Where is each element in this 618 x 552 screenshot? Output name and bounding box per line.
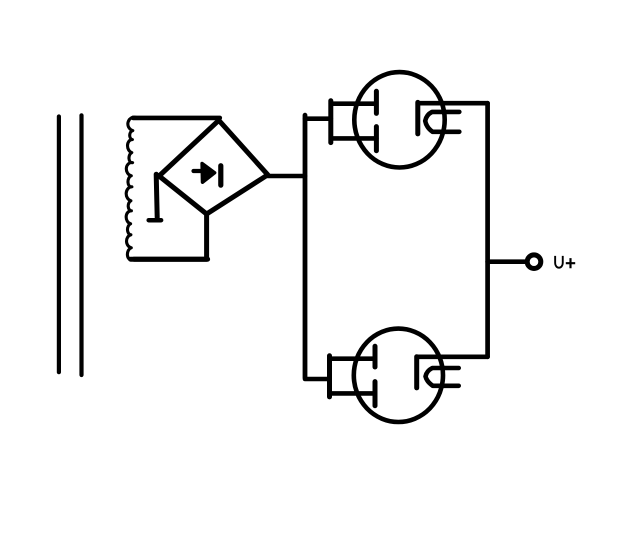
left rail wire (303, 115, 308, 378)
V1 cathode hook (425, 112, 459, 132)
V2 gate outer bar (327, 356, 332, 397)
wire left rail to V1 gate (305, 116, 331, 121)
V1 anode bar (415, 102, 420, 133)
output terminal ring (527, 255, 541, 269)
V1 gate outer bar (328, 101, 333, 143)
wire bridge bottom vertex down and left to coil (131, 215, 207, 260)
diode triangle (202, 164, 215, 183)
right rail wire (485, 103, 490, 357)
V1 gate bottom arm (331, 136, 377, 141)
wire coil bottom stub (134, 257, 208, 262)
transformer core line 1 (57, 117, 61, 373)
output wire (488, 259, 526, 264)
transformer secondary winding (126, 117, 136, 260)
V2 channel bar lower segment (373, 382, 378, 406)
wire coil top to bridge top vertex (133, 116, 220, 121)
center tap wire (156, 174, 157, 217)
wire left rail to V2 gate (305, 377, 330, 382)
transformer core line 2 (79, 115, 83, 375)
V2 gate bottom arm (330, 391, 376, 396)
label U+ (555, 256, 575, 268)
wire V1 anode to right rail (418, 101, 488, 106)
V2 gate top arm (330, 356, 376, 361)
V2 anode bar (414, 357, 419, 388)
ground bar (149, 218, 161, 223)
tube V2 envelope (354, 329, 443, 422)
V2 cathode hook (426, 368, 459, 386)
bridge rectifier diamond (159, 120, 268, 214)
V1 gate top arm (331, 101, 376, 106)
V2 channel bar upper segment (373, 346, 378, 367)
diode inside bridge: anode lead (194, 169, 206, 173)
V1 channel bar lower segment (374, 127, 379, 151)
V1 channel bar upper segment (374, 91, 379, 113)
wire V2 anode to right rail (417, 354, 488, 359)
diode cathode bar (218, 166, 223, 185)
wire bridge right vertex to left rail (268, 174, 305, 179)
tube V1 envelope (354, 72, 444, 167)
